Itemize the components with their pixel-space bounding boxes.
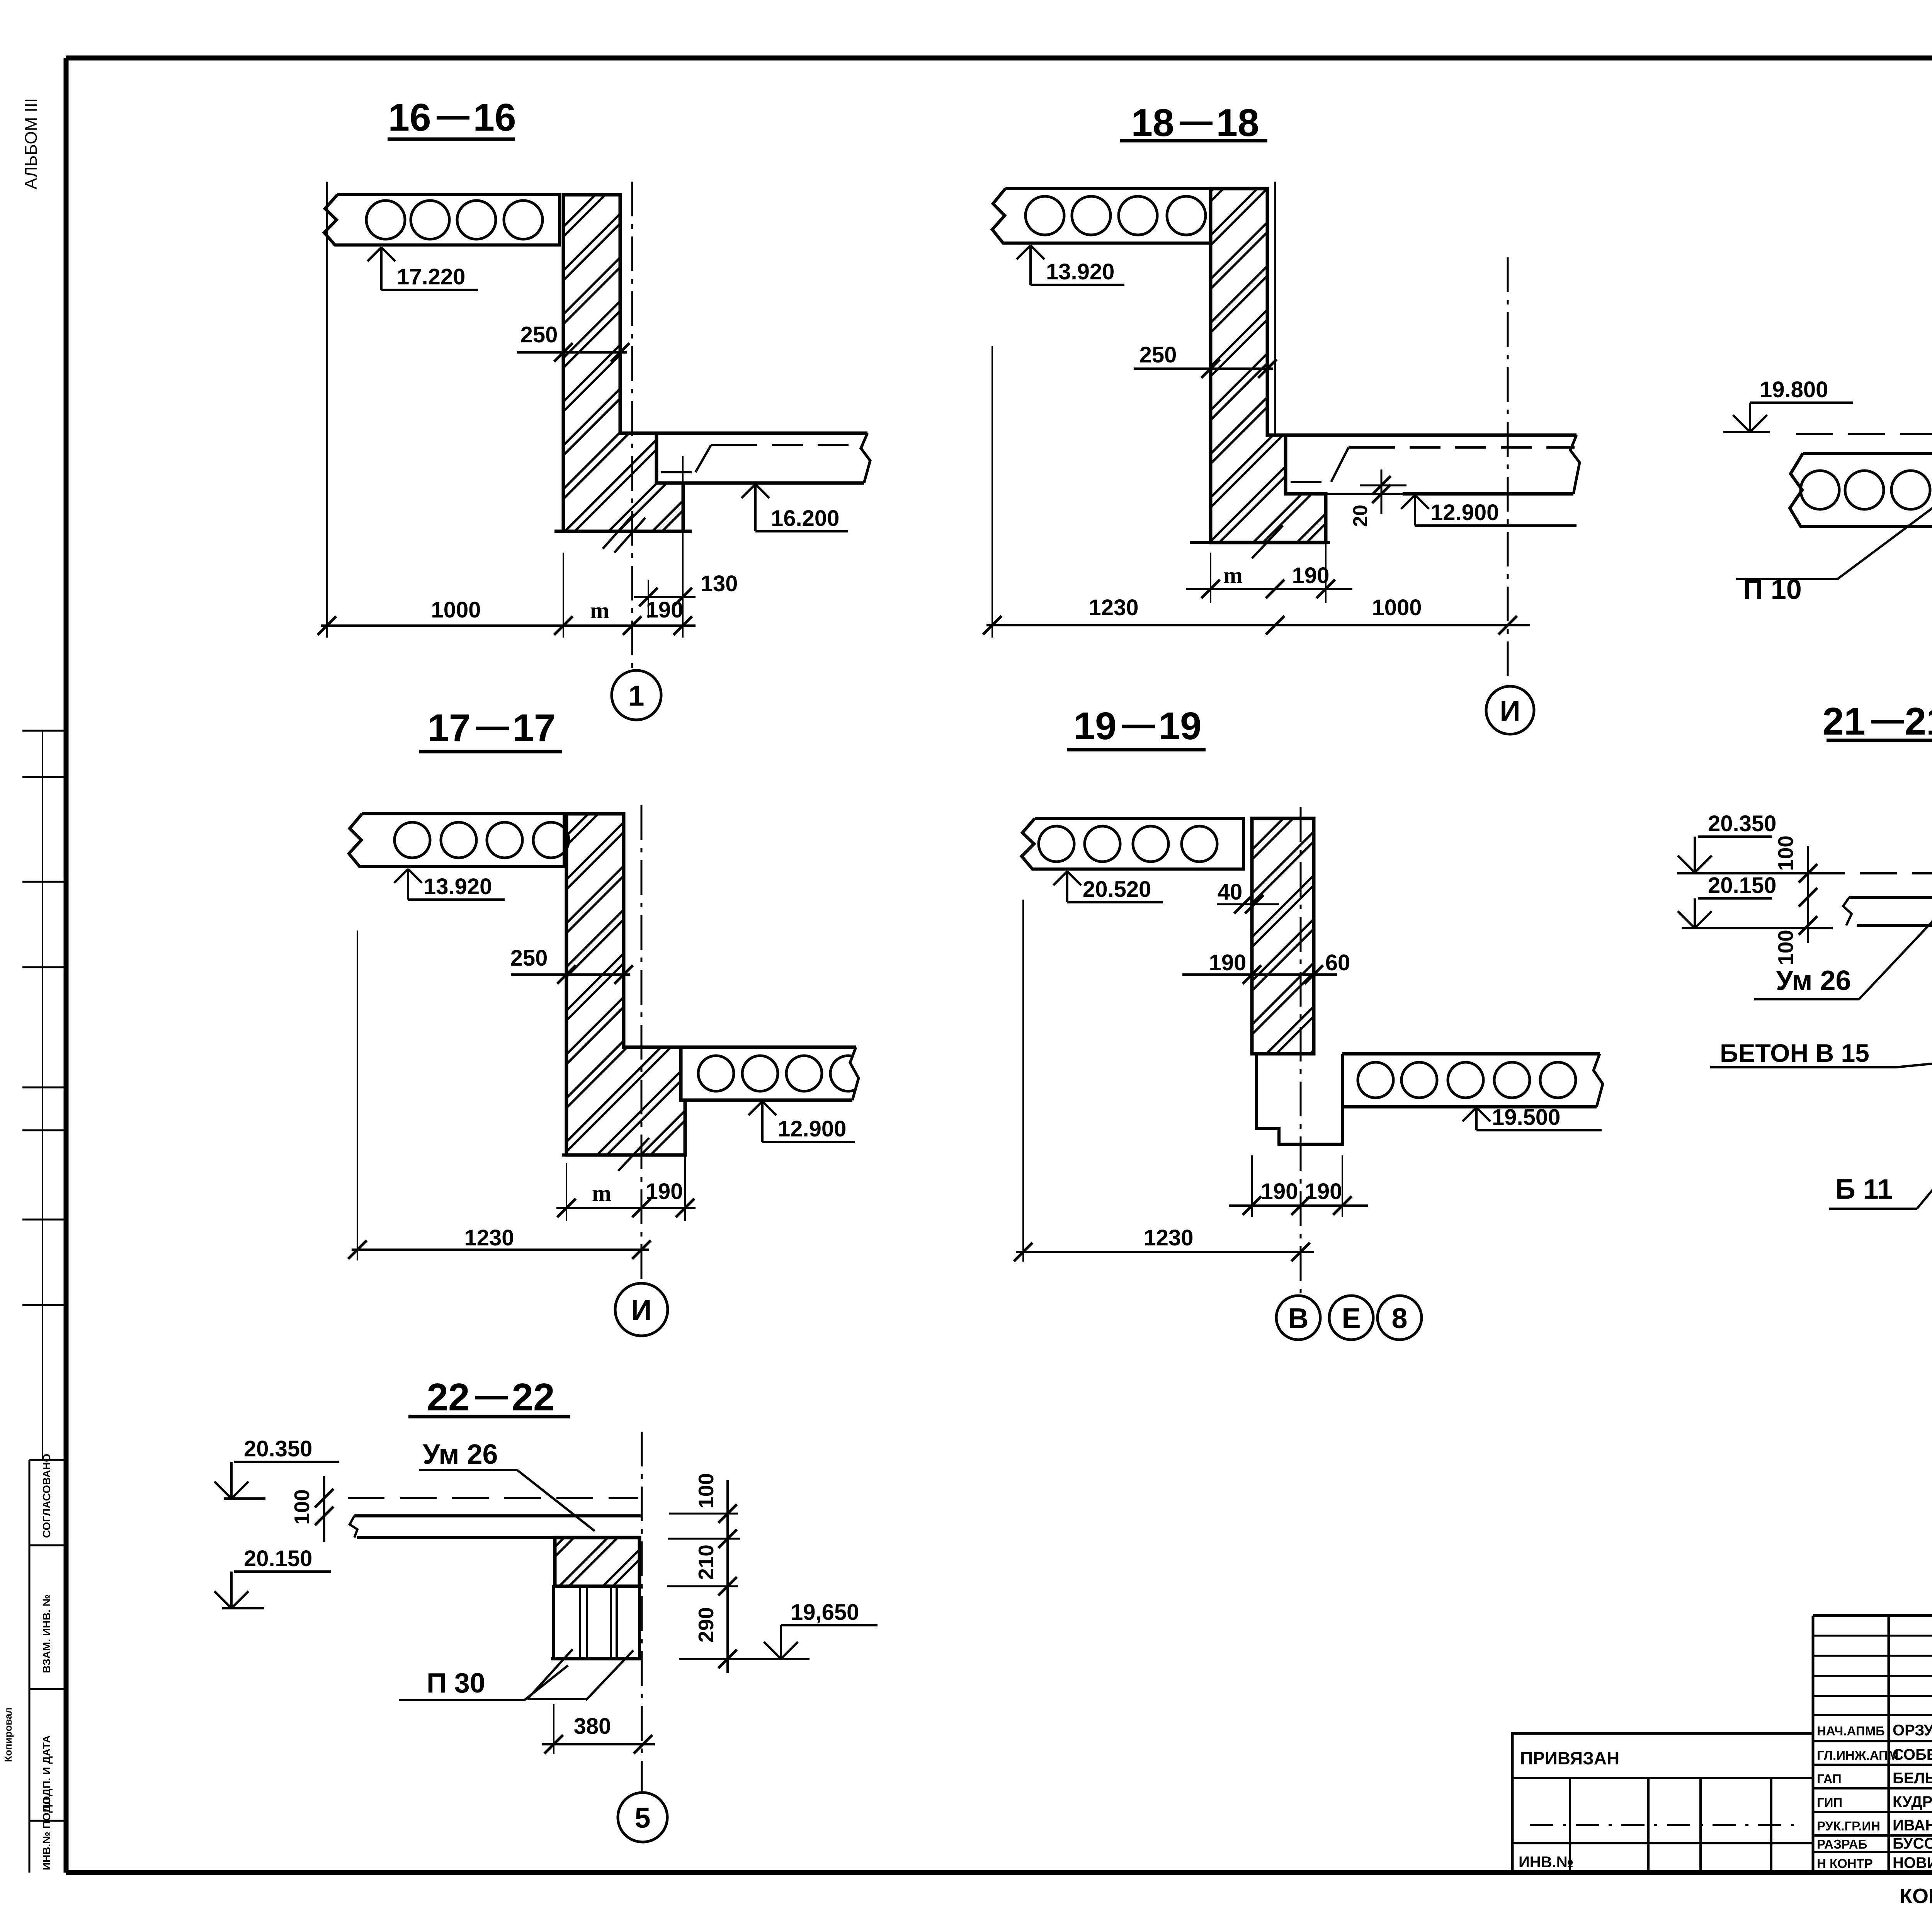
svg-text:1000: 1000 (431, 597, 481, 623)
svg-text:19.500: 19.500 (1492, 1105, 1560, 1130)
svg-text:190: 190 (1209, 950, 1247, 975)
svg-text:1230: 1230 (1088, 595, 1138, 620)
svg-text:1230: 1230 (464, 1225, 514, 1250)
svg-text:И: И (1500, 695, 1520, 727)
svg-text:60: 60 (1325, 950, 1350, 975)
svg-text:БУССЕЛЬ: БУССЕЛЬ (1893, 1835, 1932, 1852)
svg-text:20: 20 (1349, 505, 1372, 527)
svg-text:1230: 1230 (1143, 1225, 1193, 1250)
svg-text:20.520: 20.520 (1083, 877, 1151, 902)
svg-text:КОПИР. ЮДАКОВА: КОПИР. ЮДАКОВА (1900, 1885, 1932, 1908)
svg-text:290: 290 (694, 1607, 718, 1643)
svg-text:5: 5 (634, 1802, 650, 1834)
svg-text:17.220: 17.220 (397, 264, 465, 289)
svg-text:17: 17 (512, 706, 555, 750)
svg-text:13.920: 13.920 (1046, 259, 1114, 284)
svg-text:190: 190 (646, 597, 684, 623)
svg-text:И: И (631, 1294, 651, 1326)
svg-text:12.900: 12.900 (1430, 500, 1499, 525)
svg-text:ВЗАМ. ИНВ. №: ВЗАМ. ИНВ. № (41, 1594, 53, 1673)
svg-text:380: 380 (574, 1714, 611, 1739)
svg-text:21: 21 (1905, 700, 1932, 743)
svg-text:190: 190 (646, 1179, 683, 1204)
svg-text:20.150: 20.150 (244, 1546, 312, 1571)
svg-text:100: 100 (694, 1473, 718, 1509)
svg-text:ПРИВЯЗАН: ПРИВЯЗАН (1520, 1748, 1619, 1768)
svg-text:16: 16 (388, 96, 431, 139)
svg-text:20.350: 20.350 (1708, 811, 1776, 836)
svg-text:m: m (590, 598, 609, 623)
svg-text:m: m (1223, 563, 1243, 588)
svg-text:19,650: 19,650 (791, 1600, 859, 1625)
svg-text:13.920: 13.920 (423, 874, 492, 899)
svg-text:1: 1 (628, 680, 644, 712)
svg-text:БЕЛЬМАН: БЕЛЬМАН (1893, 1770, 1932, 1787)
svg-text:ОРЗУЛ: ОРЗУЛ (1893, 1722, 1932, 1739)
svg-text:ГИП: ГИП (1817, 1795, 1842, 1810)
svg-text:100: 100 (1774, 930, 1798, 965)
svg-text:1000: 1000 (1372, 595, 1422, 620)
svg-text:Ум 26: Ум 26 (423, 1439, 498, 1470)
svg-text:СОГЛАСОВАНО: СОГЛАСОВАНО (41, 1454, 53, 1538)
svg-text:100: 100 (290, 1489, 314, 1525)
svg-text:130: 130 (701, 571, 738, 596)
svg-text:22: 22 (427, 1376, 469, 1419)
svg-text:НОВИКОВА: НОВИКОВА (1893, 1854, 1932, 1871)
svg-text:Ум 26: Ум 26 (1776, 965, 1851, 996)
svg-text:21: 21 (1822, 700, 1865, 743)
svg-text:190: 190 (1305, 1179, 1342, 1204)
svg-text:250: 250 (1139, 342, 1177, 367)
svg-text:250: 250 (520, 322, 558, 347)
svg-text:100: 100 (1774, 835, 1798, 871)
svg-text:ИВАНОВА: ИВАНОВА (1893, 1817, 1932, 1834)
svg-text:190: 190 (1292, 563, 1330, 588)
svg-text:РУК.ГР.ИН: РУК.ГР.ИН (1817, 1819, 1880, 1833)
svg-text:Копировал: Копировал (2, 1707, 14, 1762)
svg-text:20.150: 20.150 (1708, 873, 1776, 898)
svg-text:40: 40 (1218, 879, 1243, 905)
svg-text:Н КОНТР: Н КОНТР (1817, 1856, 1873, 1871)
svg-text:17: 17 (427, 706, 470, 750)
svg-text:210: 210 (694, 1544, 718, 1580)
svg-text:В: В (1288, 1302, 1308, 1334)
svg-text:КУДРЯВЦЕВА: КУДРЯВЦЕВА (1893, 1793, 1932, 1810)
svg-text:16.200: 16.200 (771, 506, 839, 531)
svg-text:250: 250 (510, 946, 548, 971)
svg-text:П 30: П 30 (427, 1668, 485, 1699)
svg-text:ИНВ.№ ПОДЛ.: ИНВ.№ ПОДЛ. (41, 1795, 53, 1870)
svg-text:НАЧ.АПМБ: НАЧ.АПМБ (1817, 1724, 1885, 1738)
svg-text:m: m (592, 1180, 611, 1206)
svg-text:18: 18 (1131, 101, 1174, 145)
svg-text:ГЛ.ИНЖ.АПМ: ГЛ.ИНЖ.АПМ (1817, 1748, 1898, 1762)
svg-text:РАЗРАБ: РАЗРАБ (1817, 1837, 1867, 1851)
svg-text:Б 11: Б 11 (1835, 1174, 1893, 1205)
svg-text:ИНВ.№: ИНВ.№ (1519, 1854, 1573, 1871)
svg-text:18: 18 (1216, 101, 1259, 145)
svg-text:АЛЬБОМ III: АЛЬБОМ III (22, 98, 41, 189)
svg-text:12.900: 12.900 (778, 1116, 846, 1141)
svg-text:19.800: 19.800 (1760, 377, 1828, 402)
svg-text:20.350: 20.350 (244, 1436, 312, 1461)
svg-text:190: 190 (1261, 1179, 1298, 1204)
svg-text:БЕТОН В 15: БЕТОН В 15 (1720, 1039, 1869, 1067)
svg-text:ГАП: ГАП (1817, 1772, 1842, 1786)
svg-text:19: 19 (1158, 704, 1201, 748)
svg-text:22: 22 (512, 1376, 554, 1419)
svg-text:СОБЕННИКОВ: СОБЕННИКОВ (1893, 1746, 1932, 1763)
svg-text:19: 19 (1073, 704, 1116, 748)
svg-text:Е: Е (1342, 1302, 1361, 1334)
svg-text:16: 16 (473, 96, 516, 139)
svg-text:8: 8 (1391, 1302, 1407, 1334)
